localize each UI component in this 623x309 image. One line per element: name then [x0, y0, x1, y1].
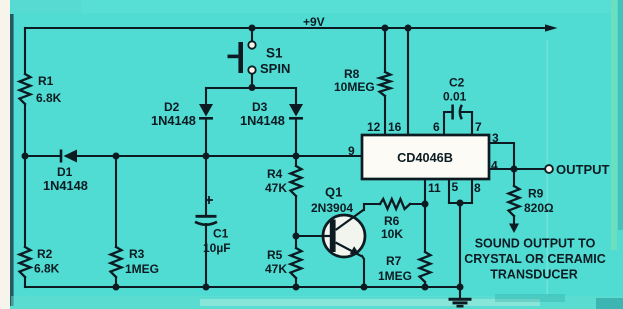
capacitor C1 — [195, 196, 217, 225]
svg-text:5: 5 — [452, 180, 459, 194]
svg-text:SOUND OUTPUT TO: SOUND OUTPUT TO — [475, 237, 596, 251]
svg-text:R5: R5 — [267, 248, 283, 262]
svg-text:1N4148: 1N4148 — [240, 113, 285, 128]
svg-text:12: 12 — [367, 120, 381, 134]
wire C1 top lead — [205, 156, 207, 217]
ground — [449, 299, 472, 306]
svg-text:+9V: +9V — [303, 15, 325, 29]
junction dot R5 bottom — [293, 284, 300, 291]
svg-text:D1: D1 — [57, 165, 73, 179]
svg-text:8: 8 — [474, 181, 481, 195]
wire left rail lower — [24, 277, 26, 287]
svg-text:47K: 47K — [265, 181, 287, 195]
wire R9 bottom lead — [513, 216, 515, 224]
svg-text:10K: 10K — [381, 227, 403, 241]
wire pin 4 to output — [489, 168, 544, 170]
wire Q1 collector to R6 — [363, 204, 365, 210]
wire pins 5/8 to ground rail — [459, 203, 461, 287]
wire Q1 emitter down — [362, 256, 364, 287]
junction dot left rail node row — [22, 153, 29, 160]
svg-text:6: 6 — [433, 120, 440, 134]
wire pin 3 — [489, 143, 514, 169]
junction dot +9V at R8 — [382, 25, 389, 32]
junction dot +9V at S1 — [249, 25, 256, 32]
arrow sound output down — [509, 224, 519, 234]
wire pin5-pin8 tie — [449, 202, 472, 204]
svg-text:10MEG: 10MEG — [334, 80, 375, 94]
wire bottom rail — [25, 286, 460, 288]
resistor R7 — [420, 252, 431, 282]
junction dot C1 bottom — [203, 284, 210, 291]
wire R9 top lead — [513, 169, 515, 186]
svg-text:SPIN: SPIN — [260, 61, 290, 76]
wire R3 bottom lead — [115, 277, 117, 287]
svg-text:820Ω: 820Ω — [524, 201, 554, 215]
svg-text:1N4148: 1N4148 — [43, 178, 88, 193]
svg-text:R3: R3 — [129, 247, 145, 261]
junction dot emitter bottom — [361, 284, 368, 291]
wire node row y156 to pin 9 — [77, 155, 362, 157]
wire pin 5 lead — [448, 179, 450, 203]
wire left rail middle — [24, 104, 26, 247]
resistor R2 — [20, 247, 31, 277]
junction dot ground rail — [457, 284, 464, 291]
wire D2-D3 tie bar — [206, 87, 296, 89]
wire S1 lower stem — [251, 74, 253, 88]
wire R6 right lead — [410, 203, 425, 205]
diode D3 — [289, 104, 303, 118]
wire C1 bottom lead — [205, 224, 207, 287]
svg-text:6.8K: 6.8K — [34, 262, 60, 276]
svg-text:C2: C2 — [449, 76, 465, 90]
junction dot +9V at pin16 — [405, 25, 412, 32]
wire Q1 base lead — [296, 235, 330, 237]
wire C2 to pin 7 — [461, 112, 472, 135]
transistor Q1 — [322, 210, 365, 258]
svg-text:11: 11 — [428, 181, 441, 195]
junction dot R7 bottom — [422, 284, 429, 291]
output terminal circle — [545, 165, 553, 173]
wire S1 upper stem — [251, 28, 253, 41]
arrow +9V rail end — [545, 24, 558, 31]
resistor R9 — [509, 186, 520, 216]
svg-text:1MEG: 1MEG — [125, 262, 159, 276]
svg-text:1N4148: 1N4148 — [151, 113, 196, 128]
op-amp-style IC U1 CD4046B box — [362, 135, 489, 179]
capacitor C2 — [453, 105, 462, 120]
wire R8 bottom lead to pin 12 — [384, 96, 386, 135]
svg-text:0.01: 0.01 — [443, 90, 467, 104]
junction dot R4 top — [293, 153, 300, 160]
svg-text:16: 16 — [388, 120, 402, 134]
svg-text:10µF: 10µF — [203, 241, 231, 255]
svg-text:7: 7 — [475, 120, 482, 134]
svg-text:R4: R4 — [267, 167, 283, 181]
svg-text:4: 4 — [491, 159, 498, 173]
svg-text:1MEG: 1MEG — [378, 269, 412, 283]
resistor R5 — [291, 248, 302, 278]
junction dot R3 bottom — [113, 284, 120, 291]
wire R4 top lead — [295, 156, 297, 166]
resistor R6 — [380, 199, 410, 209]
svg-text:R7: R7 — [386, 254, 402, 268]
junction dot R6 pin11 — [422, 201, 429, 208]
wire D3 bottom lead — [295, 119, 297, 156]
svg-text:TRANSDUCER: TRANSDUCER — [490, 268, 578, 282]
svg-text:D2: D2 — [164, 100, 180, 114]
diode D1 — [61, 150, 77, 163]
wire R5 bottom lead — [295, 278, 297, 287]
svg-text:Q1: Q1 — [325, 185, 342, 200]
resistor R3 — [111, 247, 122, 277]
wire D2 bottom lead — [205, 119, 207, 156]
wire R8 top lead pin12 column — [384, 28, 386, 72]
wire R7 bottom lead — [424, 282, 426, 287]
resistor R1 — [20, 74, 31, 104]
svg-text:R8: R8 — [344, 67, 360, 81]
wire left rail upper — [24, 28, 26, 74]
wire R4-R5 middle — [295, 196, 297, 248]
junction dot Q1 base node — [293, 233, 300, 240]
svg-text:R6: R6 — [384, 214, 400, 228]
svg-text:R1: R1 — [38, 74, 54, 88]
wire ground stem — [459, 287, 461, 297]
wire pin 16 column — [407, 28, 409, 135]
wire D3 top lead — [295, 88, 297, 104]
svg-text:CRYSTAL OR CERAMIC: CRYSTAL OR CERAMIC — [464, 252, 605, 266]
svg-text:D3: D3 — [252, 100, 268, 114]
junction dot C1 top — [203, 153, 210, 160]
svg-text:OUTPUT: OUTPUT — [556, 162, 610, 177]
svg-text:R9: R9 — [528, 187, 544, 201]
svg-text:6.8K: 6.8K — [36, 91, 62, 105]
wire pin 6 to C2 — [444, 112, 451, 135]
wire D2 top lead — [205, 88, 207, 104]
svg-text:9: 9 — [348, 144, 355, 158]
svg-text:C1: C1 — [213, 227, 229, 241]
wire R6 left lead — [364, 203, 380, 205]
svg-text:R2: R2 — [37, 247, 53, 261]
wire +9V top rail — [25, 27, 548, 29]
svg-text:47K: 47K — [265, 262, 287, 276]
svg-text:2N3904: 2N3904 — [311, 201, 353, 215]
junction dot output node — [511, 166, 518, 173]
resistor R8 — [380, 72, 391, 96]
junction dot pin5-8 tie — [457, 200, 464, 207]
wire pin 11 column — [424, 179, 426, 252]
wire pin 8 lead — [471, 179, 473, 203]
resistor R4 — [291, 166, 302, 196]
junction dot S1 to diodes — [249, 84, 256, 91]
junction dot R3 top — [113, 153, 120, 160]
svg-text:3: 3 — [492, 131, 499, 145]
svg-text:S1: S1 — [266, 46, 283, 61]
svg-text:CD4046B: CD4046B — [397, 151, 453, 165]
wire node row y156 left segment — [25, 155, 59, 157]
switch S1 — [228, 41, 256, 73]
diode D2 — [199, 104, 213, 118]
wire R3 top lead — [115, 156, 117, 247]
